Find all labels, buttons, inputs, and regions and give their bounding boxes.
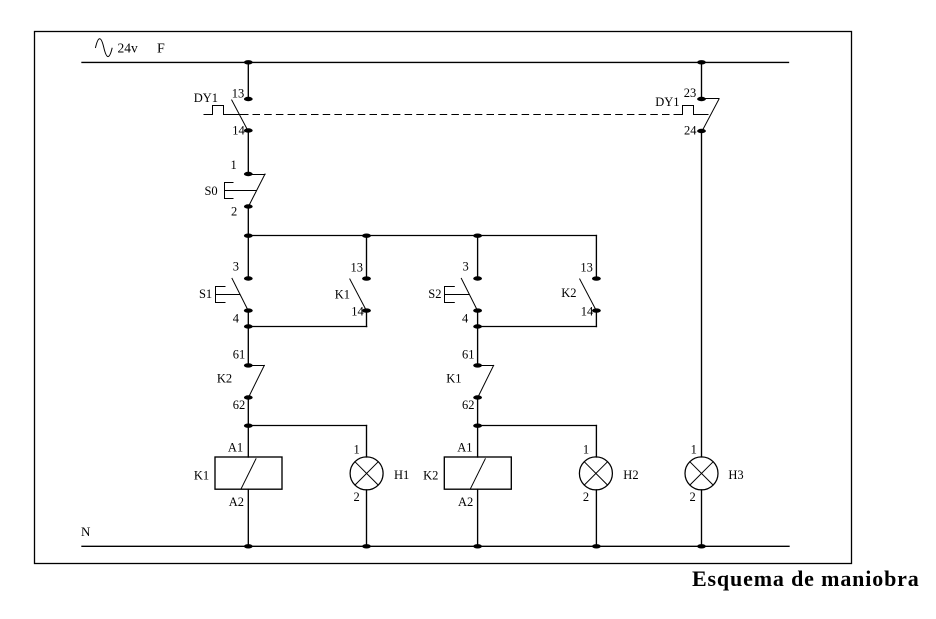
svg-text:14: 14 xyxy=(351,305,364,319)
svg-text:14: 14 xyxy=(581,305,594,319)
svg-text:H3: H3 xyxy=(728,468,743,482)
svg-text:3: 3 xyxy=(463,259,469,273)
svg-text:N: N xyxy=(81,524,91,539)
svg-text:23: 23 xyxy=(684,86,697,100)
svg-text:K2: K2 xyxy=(561,286,576,300)
svg-text:S0: S0 xyxy=(204,184,217,198)
svg-text:62: 62 xyxy=(462,398,475,412)
svg-text:1: 1 xyxy=(230,158,236,172)
svg-text:A2: A2 xyxy=(458,495,473,509)
svg-text:H2: H2 xyxy=(623,468,638,482)
svg-text:K2: K2 xyxy=(217,371,232,385)
svg-text:H1: H1 xyxy=(394,468,409,482)
svg-text:4: 4 xyxy=(233,312,240,326)
svg-text:K1: K1 xyxy=(194,469,209,483)
svg-text:13: 13 xyxy=(580,261,593,275)
svg-text:13: 13 xyxy=(232,87,245,101)
svg-text:DY1: DY1 xyxy=(655,95,679,109)
svg-text:2: 2 xyxy=(231,205,237,219)
svg-text:Esquema de maniobra: Esquema de maniobra xyxy=(692,566,920,591)
svg-text:2: 2 xyxy=(690,490,696,504)
svg-text:K1: K1 xyxy=(446,371,461,385)
svg-text:A1: A1 xyxy=(457,440,472,454)
svg-text:62: 62 xyxy=(233,398,246,412)
svg-text:2: 2 xyxy=(354,490,360,504)
svg-text:24v: 24v xyxy=(118,40,139,55)
svg-text:K2: K2 xyxy=(423,469,438,483)
svg-text:S1: S1 xyxy=(199,287,212,301)
svg-text:A2: A2 xyxy=(229,495,244,509)
svg-text:13: 13 xyxy=(351,261,364,275)
svg-text:1: 1 xyxy=(691,442,697,456)
svg-text:14: 14 xyxy=(232,123,245,137)
svg-text:DY1: DY1 xyxy=(194,91,218,105)
svg-text:1: 1 xyxy=(583,442,589,456)
svg-text:2: 2 xyxy=(583,490,589,504)
svg-text:K1: K1 xyxy=(335,287,350,301)
svg-text:A1: A1 xyxy=(228,440,243,454)
svg-text:1: 1 xyxy=(354,442,360,456)
svg-text:S2: S2 xyxy=(428,287,441,301)
svg-text:61: 61 xyxy=(462,348,475,362)
svg-text:4: 4 xyxy=(462,312,469,326)
svg-text:24: 24 xyxy=(684,123,697,137)
svg-text:F: F xyxy=(157,42,165,57)
svg-text:3: 3 xyxy=(233,259,239,273)
svg-text:61: 61 xyxy=(233,348,246,362)
